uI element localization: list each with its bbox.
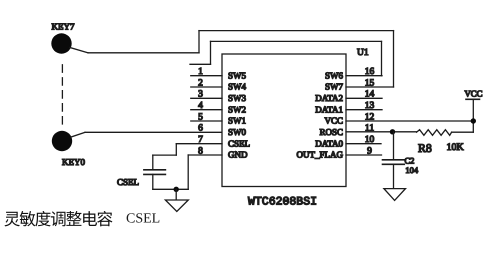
svg-text:SW2: SW2 (228, 104, 246, 114)
pin 2 SW4 (191, 78, 247, 91)
key KEY0 (52, 131, 86, 167)
svg-text:14: 14 (365, 90, 375, 100)
wire cap bottom to gnd net (153, 188, 188, 190)
wire KEY7 horizontal (88, 52, 199, 54)
junction dot (174, 187, 179, 192)
svg-text:SW0: SW0 (228, 127, 247, 137)
svg-text:SW6: SW6 (325, 70, 344, 80)
pin 16 SW6 (325, 67, 382, 80)
svg-text:4: 4 (198, 101, 203, 111)
pin 3 SW3 (191, 90, 247, 103)
svg-text:10: 10 (365, 135, 375, 145)
wire rail2 (SW6 net) (211, 40, 382, 42)
svg-text:13: 13 (365, 101, 375, 111)
svg-text:CSEL: CSEL (126, 212, 160, 227)
junction dot pin11/C2 (390, 129, 395, 134)
IC U1 body (222, 54, 346, 187)
svg-text:6: 6 (198, 124, 203, 134)
power VCC (464, 88, 482, 132)
svg-text:8: 8 (198, 146, 203, 156)
wire rail1 top (KEY7 to SW7) (199, 30, 394, 32)
wire KEY0 diagonal (71, 132, 85, 137)
wire SW6 net stub segment (190, 63, 211, 65)
svg-text:7: 7 (198, 135, 203, 145)
svg-text:16: 16 (365, 67, 375, 77)
pin 1 SW5 (191, 67, 247, 80)
svg-text:DATA1: DATA1 (315, 104, 343, 114)
svg-text:OUT_FLAG: OUT_FLAG (297, 150, 344, 160)
capacitor C2 plates (383, 156, 419, 175)
riser below cap (152, 174, 154, 189)
pin 5 SW1 (191, 112, 246, 125)
svg-text:VCC: VCC (324, 116, 343, 126)
svg-text:SW3: SW3 (228, 93, 247, 103)
svg-text:CSEL: CSEL (228, 138, 250, 148)
junction dot VCC/pin12 (471, 118, 476, 123)
svg-text:5: 5 (198, 112, 203, 122)
svg-text:ROSC: ROSC (319, 127, 343, 137)
svg-text:15: 15 (365, 78, 375, 88)
ground symbol (CSEL) (165, 200, 188, 211)
svg-text:10K: 10K (447, 142, 465, 153)
svg-text:KEY7: KEY7 (52, 22, 75, 32)
svg-text:3: 3 (198, 90, 203, 100)
wire KEY0 to pin6 (85, 131, 222, 133)
svg-text:DATA0: DATA0 (315, 138, 343, 148)
wire riser rail2 down to pin16 (381, 41, 383, 75)
caption: Chinese 灵敏度调整电容 (drawn as paths) (4, 211, 112, 226)
pin 11 ROSC wire to resistor (319, 123, 416, 136)
svg-text:SW4: SW4 (228, 82, 247, 92)
svg-text:SW7: SW7 (325, 82, 344, 92)
svg-text:R8: R8 (418, 141, 432, 155)
svg-text:GND: GND (228, 150, 248, 160)
svg-text:U1: U1 (357, 48, 369, 58)
capacitor CSEL plates (117, 170, 165, 187)
ground stem (CSEL) (175, 189, 177, 200)
riser down to cap (152, 155, 154, 170)
svg-text:SW1: SW1 (228, 116, 246, 126)
svg-text:9: 9 (367, 146, 372, 156)
pin 15 SW7 (325, 78, 394, 91)
pin 14 DATA2 (315, 90, 382, 103)
wire riser rail1 down to pin15 (393, 31, 395, 87)
wire to cap top (153, 154, 177, 156)
pin 4 SW2 (191, 101, 246, 114)
svg-text:CSEL: CSEL (117, 177, 139, 187)
pin 9 OUT_FLAG (297, 146, 382, 159)
wire KEY7 diagonal (70, 48, 88, 53)
ground symbol (C2) (384, 189, 406, 201)
svg-text:VCC: VCC (464, 88, 482, 98)
svg-text:11: 11 (365, 123, 374, 133)
wire riser to C2 (393, 132, 395, 160)
svg-text:2: 2 (198, 78, 203, 88)
capacitor CSEL wiring: riser from pin7 (175, 144, 177, 155)
pin 7 CSEL (176, 135, 250, 148)
pin 10 DATA0 (315, 135, 381, 148)
pin 12 VCC wire to rail (324, 112, 473, 125)
resistor R8 (417, 130, 474, 155)
svg-text:WTC6208BSI: WTC6208BSI (248, 196, 317, 209)
key KEY7 (51, 22, 75, 54)
pin 6 SW0 (198, 124, 246, 137)
dashed line between KEY7 and KEY0 (61, 65, 63, 124)
svg-text:DATA2: DATA2 (315, 93, 343, 103)
svg-text:1: 1 (198, 67, 203, 77)
wire SW6 net riser (210, 41, 212, 64)
riser below C2 (393, 164, 395, 188)
pin 13 DATA1 (315, 101, 382, 114)
svg-text:12: 12 (365, 112, 375, 122)
svg-text:SW5: SW5 (228, 70, 247, 80)
svg-text:104: 104 (405, 165, 419, 175)
wire KEY7 riser (198, 31, 200, 53)
pin 8 GND (188, 146, 248, 159)
svg-text:KEY0: KEY0 (62, 157, 85, 167)
riser up to pin8 (187, 155, 189, 189)
